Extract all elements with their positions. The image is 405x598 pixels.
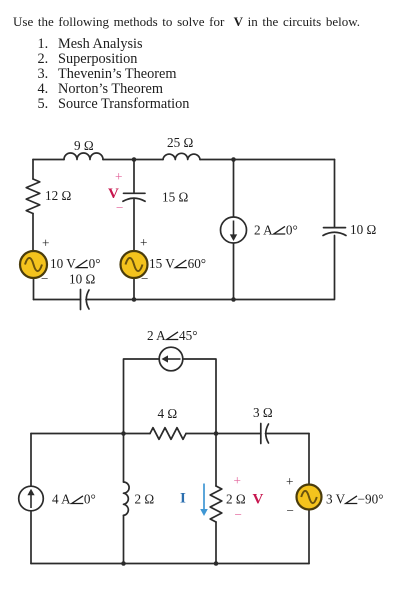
svg-text:5.Source Transformation: 5.Source Transformation [38,96,190,112]
wire middle segment to cap [186,433,261,435]
svg-text:−: − [41,271,48,286]
node E middle-left junction [121,431,126,436]
capacitor C2 10ohm series (plates) [81,290,90,310]
svg-text:I: I [180,491,186,507]
wire 2A branch lower [233,243,235,300]
node D bottom-right [231,297,236,302]
wire right upper [334,160,336,228]
wire left upper [32,160,34,180]
svg-text:2 A: 2 A [254,223,273,238]
svg-text:2.Superposition: 2.Superposition [38,51,138,67]
resistor R3 2ohm [210,486,222,522]
resistor R1 12ohm [26,179,40,214]
wire top-right segment [200,159,335,161]
svg-text:1.Mesh Analysis: 1.Mesh Analysis [38,36,144,52]
wire middle branch upper [133,160,135,194]
wire top-left segment [33,159,64,161]
svg-text:10 Ω: 10 Ω [350,222,376,237]
V2 value label 15 V angle 60deg [149,256,206,271]
source V1 10V [20,251,47,278]
svg-text:3.Thevenin’s Theorem: 3.Thevenin’s Theorem [38,66,177,82]
V1 value label 10 V angle 0deg [50,256,100,271]
wire middle branch lower [133,198,135,251]
svg-text:10 Ω: 10 Ω [69,272,95,287]
capacitor C1 15ohm (plates) [123,193,145,201]
node F middle-right junction [214,431,219,436]
svg-text:45°: 45° [179,328,197,343]
wire bottom-left segment [34,299,81,301]
wire right branch upper [308,434,310,485]
node A top-middle [132,157,137,162]
svg-text:4 Ω: 4 Ω [158,406,178,421]
svg-text:60°: 60° [188,256,206,271]
resistor R2 4ohm [150,428,186,440]
wire top loop right segment [183,359,216,434]
svg-text:+: + [140,235,147,250]
svg-text:15 Ω: 15 Ω [162,190,188,205]
inductor L3 2ohm [124,482,130,515]
wire middle left segment [31,433,150,435]
svg-text:+: + [286,474,293,489]
I2 value label 2 A angle 45deg [147,328,197,343]
svg-text:−90°: −90° [358,492,384,507]
svg-text:Use the following methods to s: Use the following methods to solve for V… [13,14,360,29]
wire left lower [33,278,35,300]
wire left middle [32,214,34,252]
V3 value label 3 V angle -90deg [326,492,384,507]
node H bottom-right junction [214,561,219,566]
source V3 3V [297,485,322,510]
I1 value label 2 A angle 0deg [254,223,298,238]
svg-text:−: − [287,503,294,518]
wire bottom-right segment [234,236,335,300]
wire 2ohm-inductor branch upper [123,434,125,483]
svg-text:2 Ω: 2 Ω [135,492,155,507]
inductor L1 9ohm [64,153,103,160]
svg-text:12 Ω: 12 Ω [45,188,71,203]
annotation I arrow (blue) [200,484,208,517]
wire bottom segment [31,563,309,565]
wire bottom-middle segment [134,299,234,301]
wire 2ohm-resistor branch lower [215,522,217,564]
svg-text:0°: 0° [84,492,96,507]
current source I3 4A [19,486,44,511]
svg-text:25 Ω: 25 Ω [167,135,193,150]
I3 value label 4 A angle 0deg [52,492,96,507]
wire from C2 to node C [86,299,134,301]
wire top-middle segment [103,159,163,161]
capacitor C4 3ohm (plates) [261,424,269,444]
svg-text:4 A: 4 A [52,492,71,507]
inductor L2 25ohm [163,153,200,159]
svg-text:10 V: 10 V [50,256,76,271]
svg-text:+: + [42,236,49,251]
svg-text:3 Ω: 3 Ω [253,405,273,420]
svg-text:3 V: 3 V [326,492,346,507]
svg-text:15 V: 15 V [149,256,175,271]
wire middle below source [133,278,135,300]
current source I1 2A [221,217,247,243]
source V2 15V [121,251,148,278]
svg-text:0°: 0° [89,256,101,271]
node C bottom-middle [132,297,137,302]
svg-text:+: + [234,473,241,488]
wire 2A branch upper [233,160,235,218]
svg-text:2 A: 2 A [147,328,166,343]
wire 2ohm-inductor branch lower [123,515,125,563]
svg-text:0°: 0° [286,223,298,238]
svg-text:9 Ω: 9 Ω [74,138,94,153]
node B top-right [231,157,236,162]
svg-text:−: − [235,507,242,522]
capacitor C3 10ohm right branch (plates) [323,228,346,236]
svg-text:−: − [116,200,123,215]
node G bottom-left junction [121,561,126,566]
svg-text:+: + [115,169,122,184]
wire left branch upper [30,434,32,487]
svg-text:2 Ω: 2 Ω [226,492,246,507]
wire 2ohm-resistor branch upper [215,434,217,487]
svg-text:4.Norton’s Theorem: 4.Norton’s Theorem [38,81,163,97]
current source I2 2A45 (top loop) [159,347,183,371]
wire from C4 to right corner [266,433,310,435]
wire top loop left segment [124,359,160,434]
wire right branch lower [308,510,310,564]
svg-text:V: V [253,491,264,507]
wire left branch lower [30,511,32,564]
svg-text:−: − [141,271,148,286]
